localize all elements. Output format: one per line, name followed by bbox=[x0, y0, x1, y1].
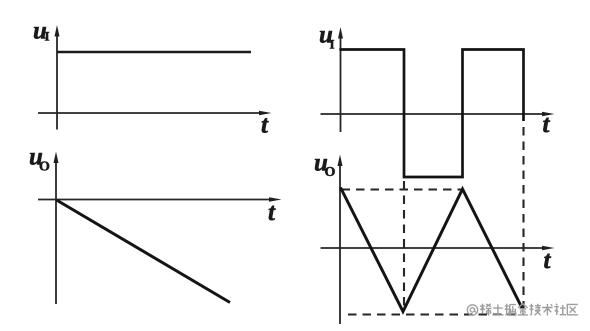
svg-text:I: I bbox=[330, 37, 335, 52]
svg-text:t: t bbox=[544, 247, 552, 274]
svg-text:O: O bbox=[325, 165, 336, 180]
svg-text:t: t bbox=[268, 199, 276, 226]
svg-text:I: I bbox=[45, 29, 50, 44]
svg-text:t: t bbox=[543, 111, 551, 138]
svg-text:t: t bbox=[261, 111, 269, 138]
svg-text:O: O bbox=[39, 160, 50, 175]
